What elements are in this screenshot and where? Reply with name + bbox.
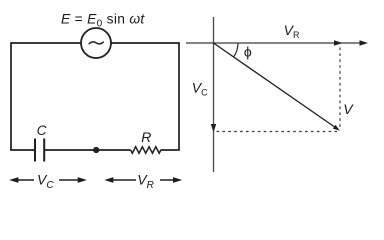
wire top-left segment <box>11 42 81 44</box>
wire top-right segment <box>111 42 179 44</box>
wire resistor to right corner <box>161 149 180 151</box>
phasor V arrowhead <box>333 125 340 131</box>
phasor horizontal axis <box>186 42 364 44</box>
wire capacitor to resistor <box>44 149 130 151</box>
capacitor C1 plates <box>35 139 44 162</box>
phasor VR arrowhead <box>334 40 343 45</box>
ac source circle U1 <box>81 28 111 58</box>
axis arrowhead right <box>360 40 369 45</box>
wire left side <box>10 42 12 150</box>
wire bottom-left to capacitor <box>10 149 35 151</box>
resistor R1 zigzag <box>131 147 161 153</box>
svg-text:V: V <box>343 101 354 117</box>
angle phi arc <box>234 43 238 57</box>
svg-text:C: C <box>37 123 47 138</box>
VC dimension arrow left part <box>14 179 35 181</box>
wire right side <box>178 42 180 150</box>
phasor VC arrowhead down <box>211 124 216 133</box>
phasor vertical axis <box>213 17 215 172</box>
VR dimension arrow right part <box>160 179 178 181</box>
dashed vertical projection <box>339 48 341 128</box>
phasor V diagonal line <box>214 43 335 127</box>
VC dimension arrow right part <box>59 179 83 181</box>
VR dimension arrow left part <box>108 179 136 181</box>
node junction dot <box>93 147 99 153</box>
svg-text:ϕ: ϕ <box>244 44 252 60</box>
svg-text:R: R <box>141 129 151 145</box>
dashed horizontal projection <box>217 131 339 133</box>
ac source sine tilde <box>89 42 104 44</box>
